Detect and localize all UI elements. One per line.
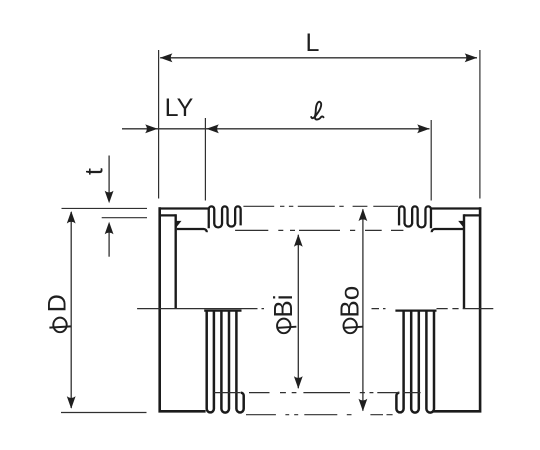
dimension LY arrowhead (outside, pointing right) — [145, 124, 430, 133]
dimension t lower leader — [108, 229, 110, 257]
dimension t extension line lower — [102, 217, 147, 219]
svg-text:Bi: Bi — [268, 294, 298, 317]
lower-left convolution tube 2 — [221, 311, 229, 413]
lower-left convolution tube 1 — [207, 311, 214, 413]
lower-left convolution root bar — [204, 309, 241, 311]
svg-text:t: t — [80, 168, 108, 175]
svg-text:D: D — [43, 294, 71, 312]
dimension t upper arrowhead (down) — [105, 191, 114, 204]
lower-right convolution tube 2 — [411, 311, 419, 413]
dimension L extension line left — [158, 50, 160, 199]
dimension LY / l shared line — [122, 128, 430, 130]
label phi of D — [49, 318, 71, 333]
dimension Bo arrowheads — [359, 209, 368, 412]
right collar inner mouth line — [464, 214, 481, 216]
left collar inner mouth line — [160, 214, 176, 216]
phantom line Bo top (bellows crest diameter, upper) — [243, 205, 398, 207]
lower-right convolution tube 1 — [426, 311, 434, 413]
dimension t lower arrowhead (up) — [105, 222, 114, 235]
label phi of Bo — [343, 319, 363, 334]
svg-text:Bo: Bo — [335, 286, 365, 318]
dimension Bo line — [362, 209, 364, 411]
dimension L line — [160, 57, 477, 59]
right inner bore line with end curl — [432, 229, 464, 232]
svg-text:LY: LY — [165, 94, 194, 122]
dimension D line — [70, 212, 72, 408]
lower-right convolution root bar — [395, 309, 436, 311]
svg-text:L: L — [306, 29, 320, 57]
dimension l extension line — [430, 120, 432, 201]
right collar inner vertical — [463, 214, 465, 308]
phantom line Bi bottom (bellows root diameter, lower) — [214, 392, 421, 394]
phantom line Bi top (bellows root diameter, upper) — [235, 229, 403, 231]
phantom line Bo bottom (bellows crest diameter, lower) — [246, 414, 393, 416]
dimension t extension line upper (shared with D) — [62, 207, 148, 209]
label phi of Bi — [277, 319, 297, 334]
dimension Bi arrowheads — [294, 234, 303, 389]
dimension D extension line bottom — [61, 412, 147, 414]
dimension D arrowheads — [67, 211, 76, 409]
dimension LY extension line — [204, 118, 206, 201]
dimension L extension line right — [479, 50, 481, 199]
lower-left convolution tube 3 with short J-leg — [236, 311, 243, 413]
lower-right convolution tube 3 with short J-leg — [396, 311, 403, 413]
dimension L arrowheads — [160, 53, 477, 62]
label script-l — [311, 102, 323, 120]
bellows left collar top wall + left convolution wave — [159, 206, 241, 228]
bellows right collar top wall + right convolution wave — [399, 206, 481, 228]
right collar notch flag — [458, 221, 465, 228]
centre axis chain line — [137, 308, 493, 310]
left inner bore line with end curl — [177, 229, 207, 232]
dimension t upper leader — [108, 156, 110, 197]
dimension Bi line — [297, 235, 299, 388]
bellows left collar outline — [160, 207, 206, 411]
left collar inner vertical — [174, 214, 176, 308]
left collar notch flag — [175, 221, 182, 228]
bellows right collar outline — [433, 207, 480, 411]
